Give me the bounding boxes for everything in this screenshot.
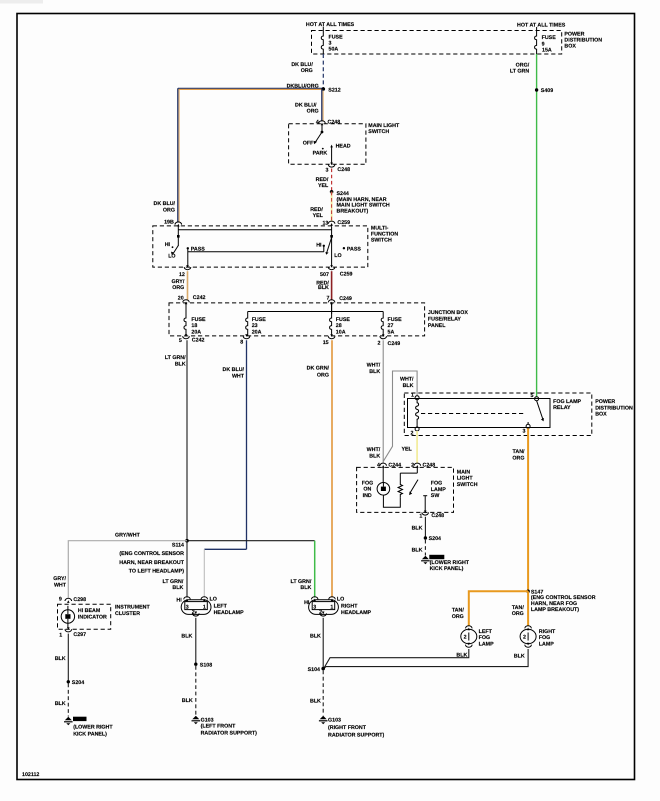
svg-text:15A: 15A bbox=[542, 48, 552, 54]
svg-text:C242: C242 bbox=[192, 338, 205, 344]
right fog lamp bbox=[520, 626, 556, 648]
svg-text:BREAKOUT): BREAKOUT) bbox=[337, 208, 369, 214]
scan artifact top-left bbox=[0, 0, 43, 4]
connector pin 19B bbox=[164, 219, 182, 226]
wire TAN/ORG (relay 3 to S147, orange) bbox=[512, 428, 528, 591]
svg-text:LEFT: LEFT bbox=[214, 604, 228, 610]
svg-text:2: 2 bbox=[319, 610, 322, 616]
multi-function switch box bbox=[153, 226, 368, 267]
wire BLK (right fog lamp ground) bbox=[324, 649, 528, 668]
wire WHT (to left headlamp LO, light gray) bbox=[203, 549, 205, 597]
multi-function switch label bbox=[371, 226, 399, 244]
svg-text:3: 3 bbox=[313, 604, 316, 610]
ground G202 (lower right kick panel) bbox=[421, 555, 470, 572]
svg-text:SW: SW bbox=[431, 493, 440, 499]
right headlamp bbox=[304, 596, 371, 616]
svg-text:1: 1 bbox=[59, 632, 62, 638]
ground G103 (left front radiator support) bbox=[192, 716, 258, 737]
wire DK BLU/ORG (S212 down to MFS pin 19B) bbox=[154, 88, 180, 222]
svg-text:FUSE: FUSE bbox=[329, 34, 344, 40]
instrument cluster box bbox=[58, 604, 111, 629]
splice S204 (right) bbox=[424, 536, 441, 542]
svg-text:LAMP BREAKOUT): LAMP BREAKOUT) bbox=[531, 607, 579, 613]
svg-text:ORG: ORG bbox=[512, 455, 524, 461]
relay pin 3 bbox=[522, 422, 530, 435]
wire BLK dashed to G202 (left) bbox=[55, 684, 69, 717]
svg-text:9: 9 bbox=[59, 596, 62, 602]
svg-text:YEL: YEL bbox=[318, 183, 329, 189]
svg-text:PASS: PASS bbox=[347, 246, 361, 252]
svg-text:HI: HI bbox=[165, 242, 171, 248]
svg-text:LAMP: LAMP bbox=[539, 642, 554, 648]
wire DK BLU/ORG horizontal (S212 left) bbox=[178, 83, 323, 89]
svg-text:LT GRN/: LT GRN/ bbox=[163, 579, 184, 585]
svg-text:YEL: YEL bbox=[401, 447, 412, 453]
node HOT AT ALL TIMES (left) bbox=[306, 22, 355, 31]
svg-text:RIGHT: RIGHT bbox=[341, 604, 358, 610]
wire BLK dashed to G103 (left) bbox=[182, 666, 196, 716]
svg-text:S212: S212 bbox=[328, 88, 340, 94]
fuse 27 5A bbox=[381, 312, 402, 336]
connector C249 pin 2 bbox=[378, 334, 401, 347]
svg-text:C259: C259 bbox=[337, 220, 350, 226]
svg-text:HI: HI bbox=[304, 600, 310, 606]
connector C242 pin 5 bbox=[179, 334, 205, 344]
svg-text:3: 3 bbox=[522, 429, 525, 435]
svg-text:C298: C298 bbox=[73, 597, 86, 603]
hi beam indicator lamp bbox=[61, 606, 107, 628]
svg-text:ORG: ORG bbox=[172, 285, 184, 291]
MFS pass-to-hi link wire bbox=[188, 245, 325, 252]
relay armature link (dashed) bbox=[421, 413, 526, 415]
MFS left dimmer switch (HI/LO/PASS) bbox=[165, 227, 206, 268]
svg-text:S108: S108 bbox=[200, 663, 212, 669]
svg-text:LO: LO bbox=[337, 596, 344, 602]
svg-text:27: 27 bbox=[388, 323, 394, 329]
wire RED/BLK (MFS 507 to junction box 7) bbox=[316, 271, 331, 300]
connector C248 pin 1 bbox=[419, 510, 444, 519]
wire DK BLU/ORG (S212 down to main light switch) bbox=[295, 89, 323, 121]
svg-text:DISTRIBUTION: DISTRIBUTION bbox=[595, 405, 633, 411]
connector C298 pin 9 bbox=[59, 596, 86, 602]
svg-text:BLK: BLK bbox=[403, 383, 414, 389]
svg-text:FUSE/RELAY: FUSE/RELAY bbox=[428, 316, 462, 322]
svg-text:1: 1 bbox=[330, 604, 333, 610]
svg-text:CLUSTER: CLUSTER bbox=[115, 611, 140, 617]
svg-text:BLK: BLK bbox=[310, 633, 321, 639]
svg-text:C248: C248 bbox=[328, 119, 341, 125]
svg-text:BLK: BLK bbox=[310, 699, 321, 705]
node HOT AT ALL TIMES (right) bbox=[517, 22, 566, 30]
svg-text:S204: S204 bbox=[429, 536, 441, 542]
svg-text:12: 12 bbox=[179, 272, 185, 278]
svg-text:KICK PANEL): KICK PANEL) bbox=[73, 731, 107, 737]
svg-text:INSTRUMENT: INSTRUMENT bbox=[115, 605, 150, 611]
svg-text:102112: 102112 bbox=[22, 772, 39, 778]
svg-text:C242: C242 bbox=[193, 295, 206, 301]
svg-text:BLK: BLK bbox=[369, 369, 380, 375]
connector C259 pin 507 bbox=[320, 265, 352, 278]
svg-text:1: 1 bbox=[411, 392, 414, 398]
svg-text:FOG: FOG bbox=[479, 635, 490, 641]
svg-text:(RIGHT FRONT: (RIGHT FRONT bbox=[328, 725, 367, 731]
svg-text:1: 1 bbox=[203, 604, 206, 610]
svg-text:HI BEAM: HI BEAM bbox=[78, 608, 101, 614]
svg-text:JUNCTION BOX: JUNCTION BOX bbox=[428, 310, 468, 316]
svg-text:DK BLU/: DK BLU/ bbox=[223, 367, 245, 373]
svg-text:5: 5 bbox=[179, 338, 182, 344]
svg-text:HEAD: HEAD bbox=[336, 144, 351, 150]
svg-text:50A: 50A bbox=[329, 47, 339, 53]
relay coil bbox=[416, 400, 419, 425]
svg-text:(LOWER RIGHT: (LOWER RIGHT bbox=[73, 725, 113, 731]
wire GRY/ORG (MFS 12 to junction box 20) bbox=[172, 271, 188, 300]
relay switch arm bbox=[537, 401, 544, 422]
svg-text:GRY/: GRY/ bbox=[53, 576, 66, 582]
svg-text:2: 2 bbox=[411, 431, 414, 437]
svg-text:HOT AT ALL TIMES: HOT AT ALL TIMES bbox=[517, 22, 566, 28]
svg-text:HI: HI bbox=[176, 598, 182, 604]
fuse 3 50A bbox=[321, 31, 343, 55]
svg-text:LT GRN/: LT GRN/ bbox=[291, 579, 312, 585]
svg-text:LAMP: LAMP bbox=[479, 642, 494, 648]
fuse 9 15A bbox=[535, 31, 557, 55]
connector C297 pin 1 bbox=[59, 627, 86, 638]
wire BLK (cluster to S204) bbox=[55, 634, 69, 682]
wire BLK (left headlamp to S108) bbox=[181, 618, 195, 664]
svg-text:MAIN LIGHT: MAIN LIGHT bbox=[368, 123, 400, 129]
svg-text:TAN/: TAN/ bbox=[452, 608, 464, 614]
power distribution box (top) bbox=[312, 31, 562, 55]
ground G103 (right front radiator support) bbox=[319, 716, 385, 739]
svg-text:TO LEFT HEADLAMP): TO LEFT HEADLAMP) bbox=[129, 568, 184, 574]
wire DK GRN/ORG (junction box 15 to right headlamp LO, orange) bbox=[307, 340, 332, 597]
svg-text:LO: LO bbox=[334, 253, 341, 259]
svg-text:ORG: ORG bbox=[307, 109, 319, 115]
svg-text:TAN/: TAN/ bbox=[513, 449, 525, 455]
svg-text:TAN/: TAN/ bbox=[512, 605, 524, 611]
svg-text:ON: ON bbox=[363, 487, 371, 493]
fog lamp relay label bbox=[553, 399, 581, 411]
svg-text:C259: C259 bbox=[340, 272, 353, 278]
svg-text:18: 18 bbox=[191, 323, 197, 329]
svg-text:FOG: FOG bbox=[539, 635, 550, 641]
svg-text:BLK: BLK bbox=[412, 547, 423, 553]
splice S244 bbox=[330, 190, 390, 214]
connector pin 15 bbox=[323, 334, 335, 346]
junction box feed wire bbox=[248, 304, 384, 314]
svg-text:C297: C297 bbox=[73, 632, 86, 638]
svg-text:LIGHT: LIGHT bbox=[457, 476, 474, 482]
splice S108 bbox=[194, 663, 212, 669]
wire TAN/ORG (S147 to right fog lamp) bbox=[512, 591, 528, 626]
svg-text:2: 2 bbox=[192, 610, 195, 616]
svg-text:SWITCH: SWITCH bbox=[368, 129, 389, 135]
svg-text:RADIATOR SUPPORT): RADIATOR SUPPORT) bbox=[328, 732, 385, 738]
svg-text:RELAY: RELAY bbox=[553, 405, 571, 411]
wire BLK (right headlamp to S104) bbox=[310, 618, 323, 669]
wire YEL (relay 2 to fog switch C248 2) bbox=[401, 431, 417, 464]
svg-text:G103: G103 bbox=[201, 717, 214, 723]
svg-text:S114: S114 bbox=[172, 542, 184, 548]
svg-text:HARN, NEAR BREAKOUT: HARN, NEAR BREAKOUT bbox=[119, 560, 185, 566]
resistor (fog sw) bbox=[398, 473, 417, 498]
svg-text:(LEFT FRONT: (LEFT FRONT bbox=[201, 724, 236, 730]
fuse 23 20A bbox=[246, 312, 267, 336]
svg-text:PARK: PARK bbox=[313, 150, 328, 156]
svg-text:WHT/: WHT/ bbox=[400, 377, 414, 383]
svg-text:DK BLU/: DK BLU/ bbox=[154, 201, 176, 207]
splice S409 bbox=[535, 88, 553, 94]
svg-text:5: 5 bbox=[530, 393, 533, 399]
svg-text:4: 4 bbox=[316, 119, 319, 125]
svg-text:PANEL: PANEL bbox=[428, 323, 446, 329]
wire DK BLU/WHT (junction box 8 down, navy) bbox=[204, 340, 246, 549]
junction box label bbox=[428, 310, 468, 329]
splice S147 bbox=[526, 589, 595, 612]
svg-text:ORG: ORG bbox=[301, 68, 313, 74]
wire LT GRN/BLK (S114 to left headlamp HI) bbox=[163, 541, 187, 598]
svg-text:DK BLU/: DK BLU/ bbox=[291, 62, 313, 68]
svg-text:BLK: BLK bbox=[182, 698, 193, 704]
instrument cluster label bbox=[115, 605, 150, 617]
svg-text:C248: C248 bbox=[431, 513, 444, 519]
wire RED/YEL (S244 to MFS pin 13, yellow w/ red dash) bbox=[310, 192, 331, 222]
MFS internal bus wire bbox=[178, 229, 331, 231]
fuse 28 10A bbox=[330, 304, 351, 336]
svg-text:WHT: WHT bbox=[232, 374, 245, 380]
svg-text:DK BLU/: DK BLU/ bbox=[295, 102, 317, 108]
relay pin 2 bbox=[411, 425, 420, 437]
svg-text:FOG: FOG bbox=[362, 480, 373, 486]
svg-text:BLK: BLK bbox=[55, 701, 66, 707]
svg-text:3: 3 bbox=[186, 604, 189, 610]
svg-text:ORG/: ORG/ bbox=[516, 62, 530, 68]
svg-text:2: 2 bbox=[378, 340, 381, 346]
svg-text:LEFT: LEFT bbox=[479, 629, 493, 635]
splice S114 bbox=[119, 539, 189, 575]
svg-text:SWITCH: SWITCH bbox=[457, 482, 478, 488]
svg-text:10A: 10A bbox=[336, 330, 346, 336]
svg-text:BLK: BLK bbox=[456, 653, 467, 659]
relay body bbox=[408, 399, 551, 428]
svg-text:HEADLAMP: HEADLAMP bbox=[341, 610, 371, 616]
svg-text:RIGHT: RIGHT bbox=[539, 629, 556, 635]
svg-text:BLK: BLK bbox=[172, 585, 183, 591]
svg-text:15: 15 bbox=[323, 340, 329, 346]
power distribution box (relay) bbox=[404, 393, 592, 436]
svg-text:GRY/WHT: GRY/WHT bbox=[115, 533, 141, 539]
fuse 18 20A bbox=[184, 304, 206, 336]
svg-text:8: 8 bbox=[240, 339, 243, 345]
fog on indicator lamp bbox=[362, 467, 390, 498]
left fog lamp bbox=[461, 626, 494, 648]
connector C248 pin 3 bbox=[326, 163, 351, 174]
main light switch label bbox=[368, 123, 400, 135]
wire GRY/WHT (S114 to instrument cluster) bbox=[53, 533, 187, 598]
svg-text:ORG: ORG bbox=[317, 372, 329, 378]
svg-text:LO: LO bbox=[168, 254, 175, 260]
svg-text:OFF: OFF bbox=[303, 141, 314, 147]
fog indicator return wire bbox=[383, 495, 400, 507]
connector C249 pin 7 bbox=[327, 296, 352, 305]
svg-text:BOX: BOX bbox=[595, 412, 607, 418]
splice S212 bbox=[322, 87, 341, 93]
connector C244 pin 4 bbox=[377, 462, 401, 468]
svg-text:KICK PANEL): KICK PANEL) bbox=[430, 566, 464, 572]
svg-text:BLK: BLK bbox=[514, 654, 525, 660]
svg-text:WHT/: WHT/ bbox=[367, 362, 381, 368]
ground G202 (lower right kick panel, left) bbox=[64, 717, 113, 738]
svg-text:DK GRN/: DK GRN/ bbox=[307, 365, 330, 371]
svg-text:20: 20 bbox=[178, 296, 184, 302]
svg-text:FOG: FOG bbox=[431, 481, 442, 487]
connector C259 pin 13 bbox=[322, 220, 350, 226]
svg-text:WHT/: WHT/ bbox=[367, 447, 381, 453]
svg-text:IND: IND bbox=[363, 493, 372, 499]
svg-text:INDICATOR: INDICATOR bbox=[78, 614, 107, 620]
wire BLK dashed to G202 bbox=[412, 540, 426, 556]
wire WHT/BLK branch (to relay coil pin 1) bbox=[383, 371, 417, 462]
svg-text:BOX: BOX bbox=[564, 43, 576, 49]
svg-text:5A: 5A bbox=[388, 330, 395, 336]
switch SW1 internals (OFF/PARK/HEAD) bbox=[303, 125, 351, 164]
svg-text:LT GRN/: LT GRN/ bbox=[165, 355, 186, 361]
svg-text:S104: S104 bbox=[308, 667, 320, 673]
power distribution box label bbox=[564, 32, 602, 50]
svg-text:HOT AT ALL TIMES: HOT AT ALL TIMES bbox=[306, 22, 355, 28]
wire BLK dashed to G103 (right) bbox=[310, 670, 323, 715]
svg-text:FUSE: FUSE bbox=[542, 35, 557, 41]
connector MFS pin 12 bbox=[179, 265, 191, 278]
main light switch box bbox=[289, 124, 366, 165]
svg-text:HI: HI bbox=[316, 242, 322, 248]
svg-text:SWITCH: SWITCH bbox=[371, 238, 392, 244]
svg-text:FUSE: FUSE bbox=[252, 317, 267, 323]
svg-text:BLK: BLK bbox=[369, 454, 380, 460]
svg-text:S204: S204 bbox=[72, 680, 84, 686]
relay pin 1 bbox=[411, 392, 419, 399]
connector C248 pin 4 bbox=[316, 119, 340, 125]
wire LT GRN/BLK (junction box 5 to S114, black) bbox=[165, 340, 187, 540]
left headlamp bbox=[176, 596, 244, 616]
wire BLK (fog switch to S204) bbox=[412, 517, 426, 538]
svg-text:23: 23 bbox=[252, 323, 258, 329]
svg-text:2: 2 bbox=[464, 635, 467, 641]
svg-text:POWER: POWER bbox=[595, 399, 615, 405]
svg-text:3: 3 bbox=[326, 168, 329, 174]
svg-text:DKBLU/ORG: DKBLU/ORG bbox=[287, 83, 319, 89]
svg-text:ORG: ORG bbox=[163, 207, 175, 213]
wire TAN/ORG (S147 to left fog lamp) bbox=[452, 591, 528, 626]
svg-text:LT GRN: LT GRN bbox=[510, 69, 529, 75]
svg-text:WHT: WHT bbox=[54, 583, 67, 589]
svg-text:BLK: BLK bbox=[175, 362, 186, 368]
wire WHT/BLK (junction box 2 to fog switch, gray) bbox=[367, 340, 384, 463]
svg-text:G103: G103 bbox=[328, 717, 341, 723]
wire RED/YEL (C248 to S244, red dashed) bbox=[316, 169, 332, 192]
connector pin 8 bbox=[240, 334, 250, 345]
MFS right dimmer switch (HI/LO/PASS) bbox=[316, 227, 361, 268]
svg-text:BLK: BLK bbox=[55, 656, 66, 662]
splice S204 (left) bbox=[67, 680, 85, 686]
svg-text:FUSE: FUSE bbox=[336, 317, 351, 323]
relay pin 5 bbox=[530, 393, 538, 401]
svg-text:LO: LO bbox=[210, 596, 217, 602]
wire LT GRN/BLK (S114 to right headlamp HI) bbox=[187, 541, 315, 598]
svg-text:ORG: ORG bbox=[452, 614, 464, 620]
splice S104 bbox=[308, 667, 325, 673]
svg-text:FUSE: FUSE bbox=[191, 317, 206, 323]
svg-text:1: 1 bbox=[419, 513, 422, 519]
svg-text:2: 2 bbox=[523, 635, 526, 641]
svg-text:C248: C248 bbox=[337, 167, 350, 173]
svg-text:7: 7 bbox=[327, 296, 330, 302]
svg-text:YEL: YEL bbox=[313, 213, 324, 219]
svg-text:LAMP: LAMP bbox=[431, 487, 446, 493]
main light switch (fog) box bbox=[357, 467, 454, 512]
power distribution box label (relay) bbox=[595, 399, 633, 417]
svg-text:20A: 20A bbox=[252, 330, 262, 336]
svg-text:20A: 20A bbox=[191, 330, 201, 336]
connector C242 pin 20 bbox=[178, 295, 206, 304]
svg-text:BLK: BLK bbox=[181, 633, 192, 639]
svg-text:28: 28 bbox=[336, 323, 342, 329]
svg-text:HEADLAMP: HEADLAMP bbox=[214, 610, 244, 616]
svg-text:FUSE: FUSE bbox=[388, 317, 403, 323]
main light switch label bbox=[457, 470, 478, 488]
svg-text:507: 507 bbox=[320, 272, 329, 278]
svg-text:(ENG CONTROL SENSOR: (ENG CONTROL SENSOR bbox=[119, 551, 184, 557]
svg-text:BLK: BLK bbox=[412, 525, 423, 531]
svg-text:9: 9 bbox=[542, 41, 545, 47]
wire BLK (left fog lamp ground) bbox=[324, 649, 469, 668]
fog lamp switch SW bbox=[409, 467, 446, 512]
wire ORG/LT GRN (fuse 9 to relay pin 5, green) bbox=[510, 54, 537, 397]
connector C248 pin 2 bbox=[411, 462, 435, 468]
svg-text:RADIATOR SUPPORT): RADIATOR SUPPORT) bbox=[201, 731, 258, 737]
svg-text:19B: 19B bbox=[164, 219, 174, 225]
svg-text:BLK: BLK bbox=[318, 285, 329, 291]
junction box bbox=[169, 303, 425, 336]
svg-text:C249: C249 bbox=[388, 341, 401, 347]
svg-text:BLK: BLK bbox=[300, 585, 311, 591]
svg-text:S409: S409 bbox=[541, 88, 553, 94]
svg-text:ORG: ORG bbox=[512, 611, 524, 617]
svg-text:MAIN: MAIN bbox=[457, 470, 471, 476]
svg-text:C249: C249 bbox=[339, 296, 352, 302]
wire DK BLU/ORG (fuse 3 to S212, dashed navy) bbox=[291, 54, 323, 88]
